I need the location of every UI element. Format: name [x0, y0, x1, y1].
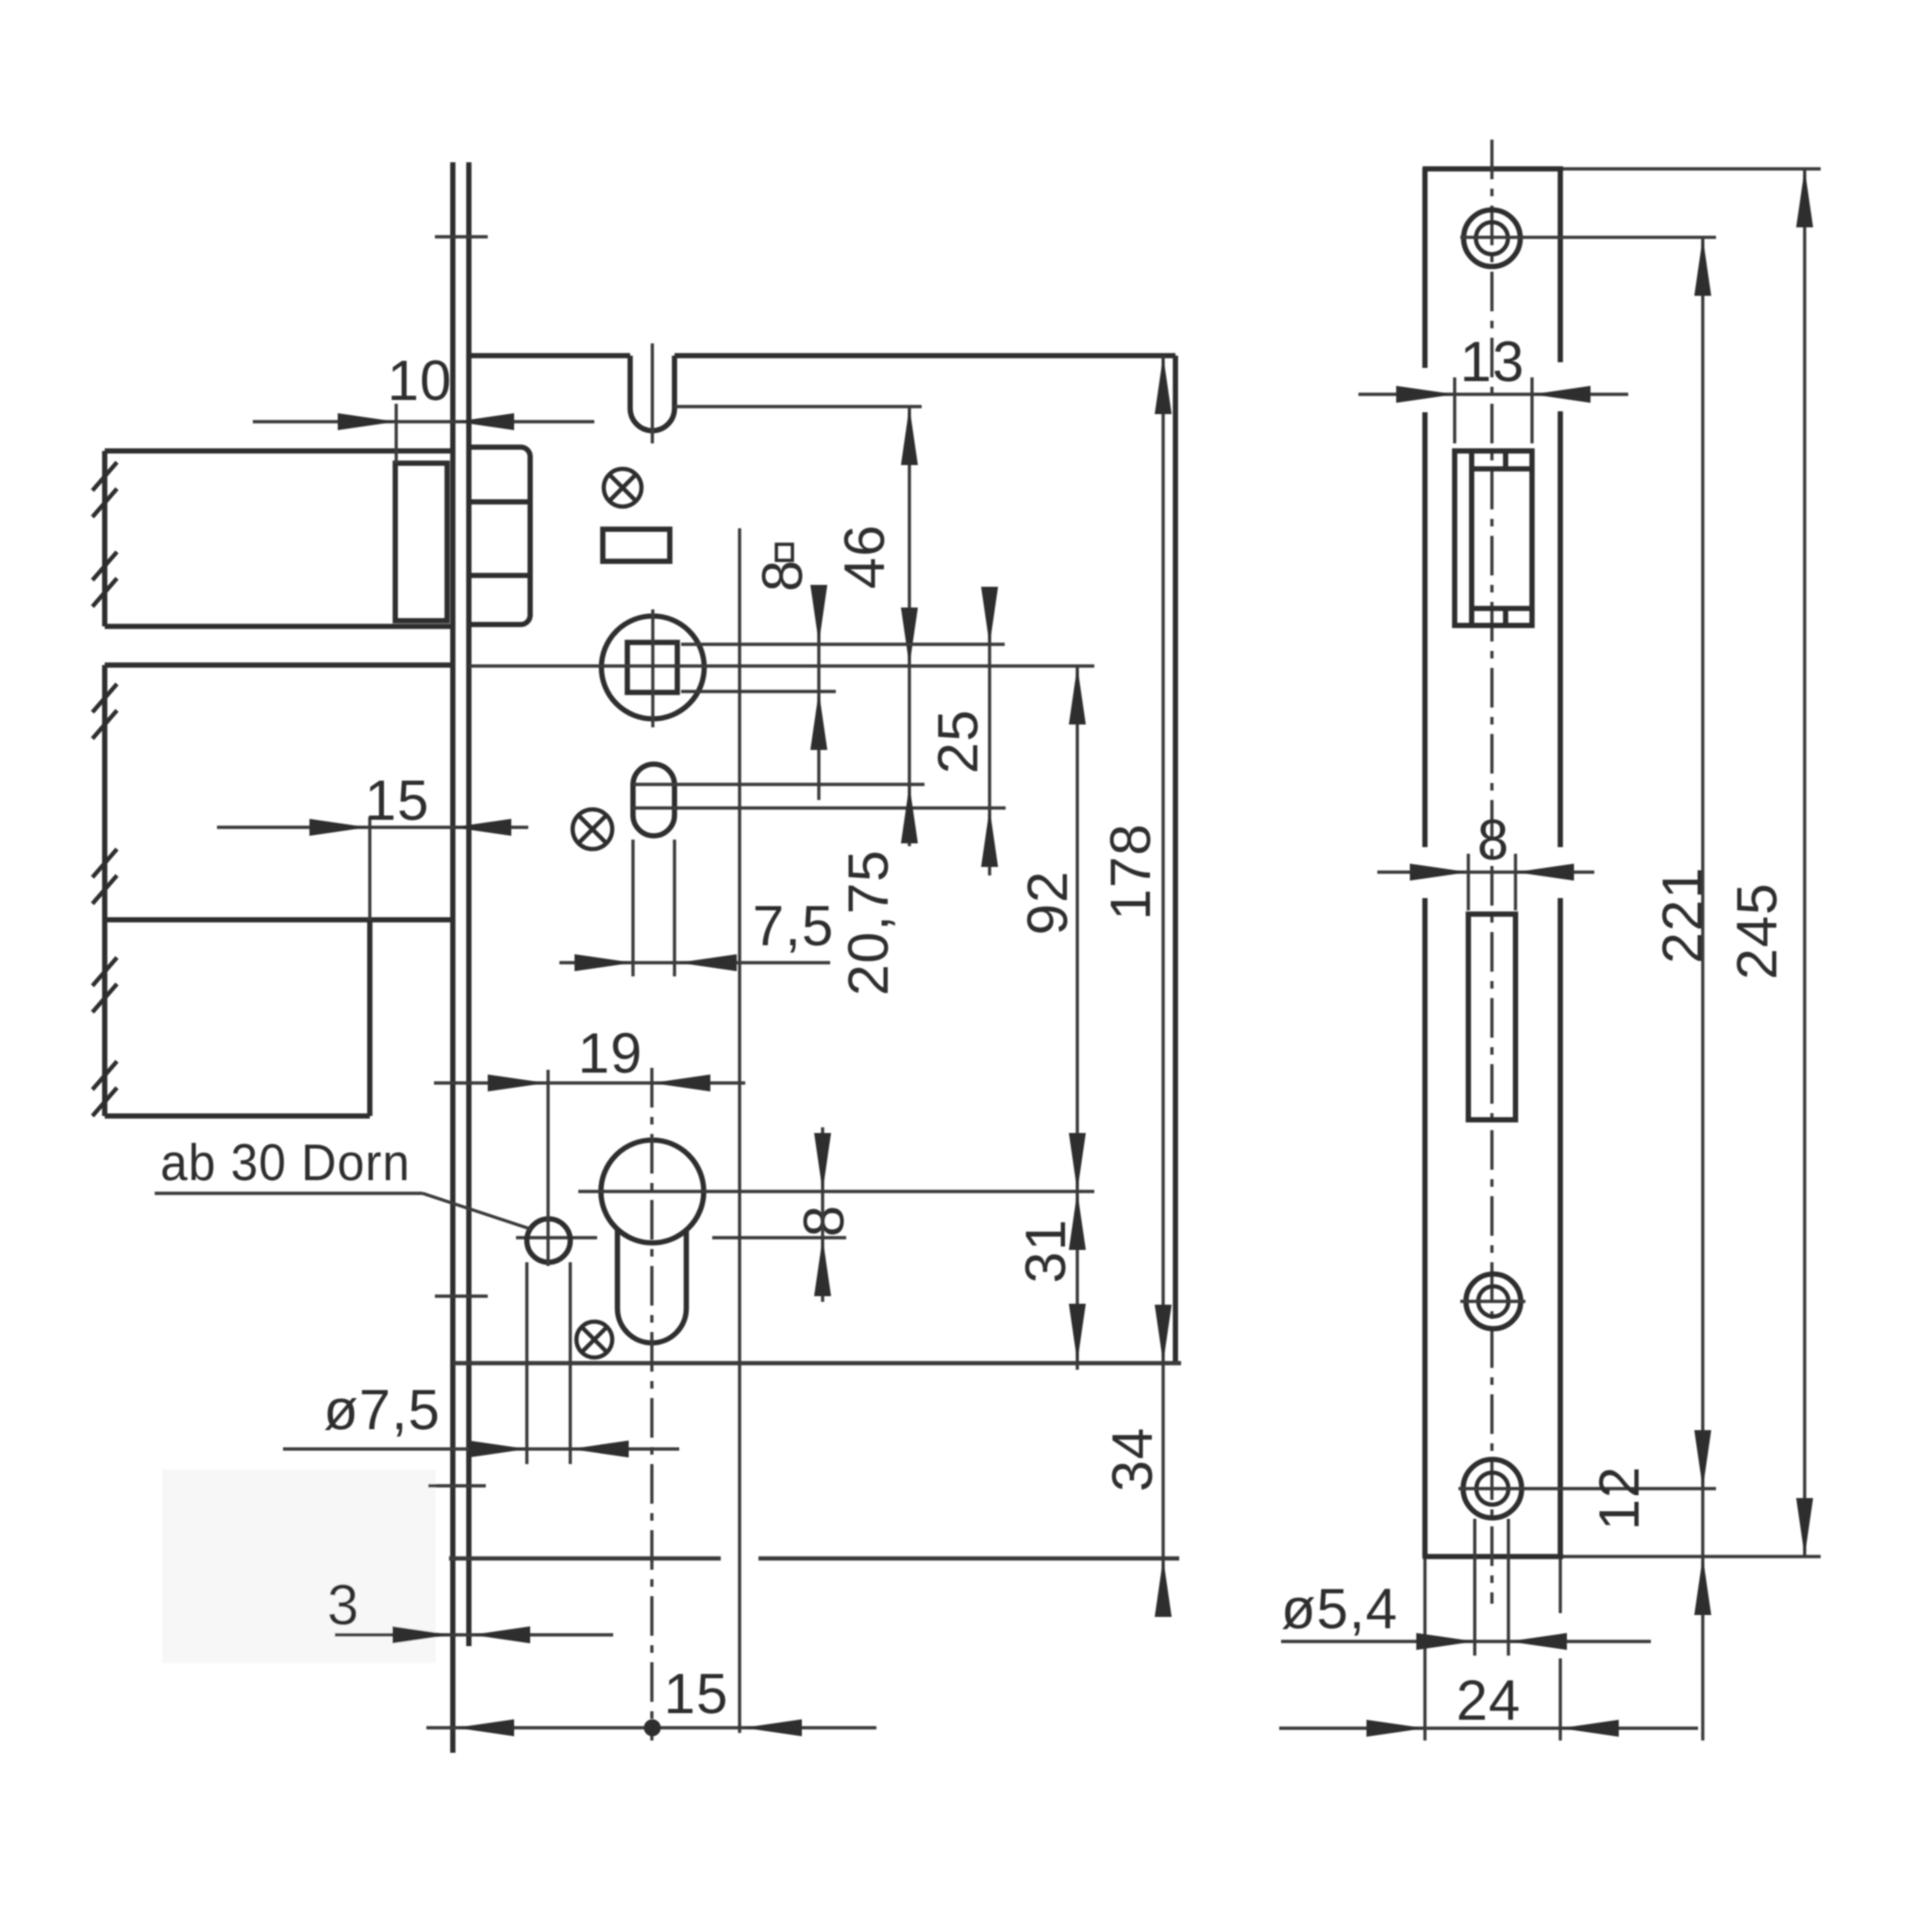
dia7.5 left extension [525, 1262, 528, 1464]
latch bolt head [469, 447, 530, 625]
svg-text:221: 221 [1651, 866, 1714, 963]
oval hole [633, 764, 675, 836]
svg-text:31: 31 [1014, 1219, 1077, 1284]
lower body block [105, 1113, 370, 1119]
neck bottom extension (8 dim) [516, 1236, 597, 1239]
follower circle [602, 616, 705, 719]
top screw hole [1464, 210, 1521, 267]
svg-text:15: 15 [365, 769, 430, 832]
case top edge left of notch [469, 353, 630, 358]
deadbolt window [1469, 914, 1516, 1120]
cylinder centreline (lock axis) [650, 1068, 653, 1740]
top notch slot [627, 356, 633, 408]
screw symbol bottom [576, 1322, 612, 1357]
plate centreline [1491, 140, 1493, 1604]
oval upper tick / 20,75 extension [633, 783, 924, 786]
svg-text:92: 92 [1016, 871, 1079, 936]
strike plate right edge [1557, 168, 1563, 362]
svg-text:25: 25 [926, 709, 990, 774]
latch head upper bevel line [469, 499, 530, 505]
svg-text:12: 12 [1588, 1466, 1651, 1531]
svg-text:20,75: 20,75 [837, 849, 900, 995]
svg-text:245: 245 [1725, 882, 1789, 979]
svg-text:34: 34 [1101, 1427, 1164, 1492]
svg-text:8: 8 [751, 559, 814, 591]
latch bolt tail guide [395, 463, 447, 621]
svg-text:10: 10 [388, 349, 453, 412]
top hole cross line / 221 extension [1460, 236, 1716, 239]
dia5.4 left extension [1474, 1519, 1476, 1656]
latch window with insert [1455, 451, 1532, 625]
svg-text:13: 13 [1460, 330, 1525, 393]
faceplate bottom end + extension [449, 1557, 721, 1561]
cylinder horizontal centreline / extension [578, 1190, 1094, 1192]
notch centreline [651, 343, 654, 443]
backset reference hole [527, 1219, 571, 1262]
small hole vertical centreline / 19 extension [546, 1070, 549, 1266]
screw symbol middle [573, 809, 612, 849]
faceplate centreline tick top [435, 235, 488, 238]
faint scan tint [162, 1470, 436, 1663]
follower vertical centreline [651, 609, 654, 727]
svg-text:15: 15 [664, 1662, 729, 1725]
bottom screw hole [1463, 1459, 1522, 1518]
svg-text:24: 24 [1457, 1669, 1522, 1732]
small rectangular hole [603, 529, 670, 561]
svg-text:3: 3 [327, 1574, 359, 1637]
faceplate front edge [450, 162, 456, 1753]
svg-text:8: 8 [1477, 808, 1509, 872]
svg-text:46: 46 [833, 525, 896, 590]
latch bolt body [105, 448, 451, 454]
svg-text:7,5: 7,5 [753, 894, 834, 958]
follower horizontal centreline / extension [469, 664, 1094, 667]
strike plate top edge + extension [1423, 166, 1563, 172]
extension follower square top [681, 642, 1005, 645]
long vertical extension line (15 dim) [738, 528, 741, 1733]
bottom hole cross line / 221+12 extension [1458, 1487, 1716, 1490]
case right edge [1173, 356, 1178, 1363]
strike plate bottom edge + extension [1423, 1554, 1563, 1559]
case bottom edge [453, 1361, 1181, 1366]
strike plate left edge [1423, 168, 1428, 368]
extension follower square bottom [681, 690, 836, 692]
svg-text:ø5,4: ø5,4 [1281, 1577, 1398, 1641]
svg-text:19: 19 [578, 1022, 643, 1085]
oval lower tick / 25 extension [633, 807, 1006, 809]
faceplate back edge [466, 162, 472, 1646]
square symbol of dim 8 [776, 544, 792, 560]
follower square 8mm [627, 642, 677, 692]
svg-text:ø7,5: ø7,5 [324, 1378, 441, 1441]
screw symbol top [604, 469, 641, 507]
PZ cylinder hole [601, 1141, 704, 1243]
latch head lower bevel line [469, 573, 530, 578]
extension of lower body edge (15 dim) [368, 817, 371, 920]
middle screw hole [1466, 1274, 1521, 1329]
deadbolt body [105, 662, 451, 668]
notch rounded bottom [630, 408, 675, 431]
case top edge right of notch [675, 353, 1175, 358]
faceplate centreline tick bottom [428, 1484, 486, 1487]
dia5.4 right extension [1507, 1519, 1509, 1656]
svg-text:178: 178 [1099, 823, 1162, 920]
faceplate centreline tick middle [435, 1294, 488, 1297]
svg-text:ab 30 Dorn: ab 30 Dorn [160, 1133, 410, 1191]
dia7.5 right extension [569, 1262, 572, 1464]
